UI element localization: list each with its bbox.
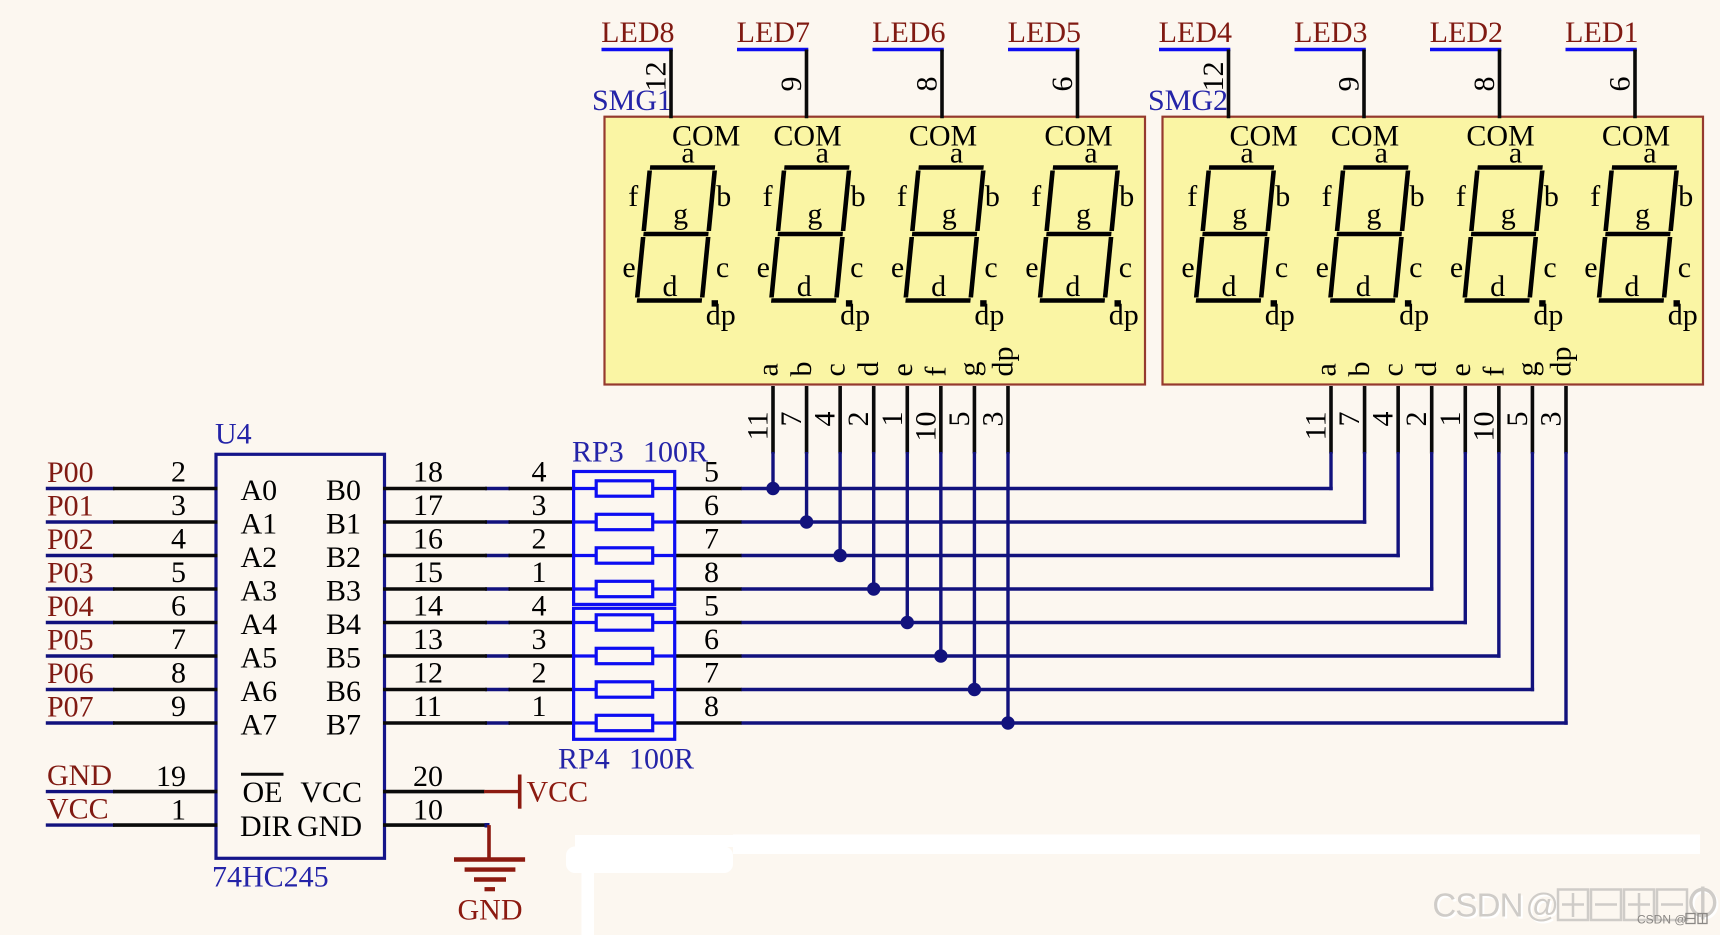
wire segment row 2 (chip pin to RP pin) bbox=[485, 520, 510, 523]
wire SMG1 a vertical bbox=[771, 452, 774, 489]
wire segment row 4 (RP output to displays) bbox=[741, 587, 1433, 590]
wire SMG2 a vertical bbox=[1329, 452, 1332, 490]
svg-text:B3: B3 bbox=[326, 575, 361, 608]
resistor RP4 element 2 body bbox=[596, 648, 653, 663]
svg-text:5: 5 bbox=[171, 556, 186, 589]
svg-text:B1: B1 bbox=[326, 508, 361, 541]
resistor RP3 element 1 body bbox=[596, 481, 653, 496]
pin of RP (pin 4) bbox=[509, 487, 576, 491]
pin A4 (pin 6) of U4 bbox=[113, 621, 218, 625]
pin dp (pin 3) of SMG2 bbox=[1564, 386, 1568, 454]
svg-text:1: 1 bbox=[532, 690, 547, 723]
decimal point dp bbox=[1271, 300, 1277, 306]
junction node row 6 bbox=[934, 649, 947, 662]
svg-text:B6: B6 bbox=[326, 675, 361, 708]
svg-text:VCC: VCC bbox=[300, 776, 362, 809]
7-segment digit 2 of SMG2 bbox=[1330, 168, 1408, 301]
svg-text:COM: COM bbox=[1044, 120, 1112, 153]
junction node row 8 bbox=[1001, 716, 1014, 729]
svg-text:g: g bbox=[1635, 198, 1650, 231]
svg-text:7: 7 bbox=[704, 523, 719, 556]
pin of RP (pin 1) bbox=[509, 587, 576, 591]
svg-text:b: b bbox=[1275, 180, 1290, 213]
svg-text:14: 14 bbox=[413, 590, 443, 623]
svg-text:d: d bbox=[1356, 270, 1371, 303]
svg-text:A7: A7 bbox=[241, 709, 278, 742]
svg-text:2: 2 bbox=[1400, 412, 1433, 427]
svg-text:P02: P02 bbox=[47, 523, 94, 556]
svg-text:GND: GND bbox=[297, 810, 362, 843]
svg-text:g: g bbox=[1076, 198, 1091, 231]
svg-text:B4: B4 bbox=[326, 608, 361, 641]
7-segment digit 1 of SMG2 bbox=[1196, 168, 1274, 301]
svg-text:5: 5 bbox=[704, 590, 719, 623]
svg-text:g: g bbox=[1511, 362, 1544, 377]
wire (net LED6) bbox=[873, 48, 944, 51]
op-amp substitute: IC U4 74HC245 body bbox=[216, 454, 385, 858]
watermark white knockout shapes bbox=[575, 835, 733, 847]
decimal point dp bbox=[712, 300, 718, 306]
svg-text:16: 16 bbox=[413, 523, 443, 556]
svg-text:a: a bbox=[816, 137, 829, 170]
svg-text:LED5: LED5 bbox=[1008, 16, 1081, 49]
svg-text:LED7: LED7 bbox=[737, 16, 810, 49]
pin dp (pin 3) of SMG1 bbox=[1006, 386, 1010, 454]
svg-text:f: f bbox=[1590, 180, 1600, 213]
pin of RP (pin 4) bbox=[509, 621, 576, 625]
svg-text:b: b bbox=[1410, 180, 1425, 213]
decimal point dp bbox=[980, 300, 986, 306]
junction node row 1 bbox=[766, 482, 779, 495]
svg-text:COM: COM bbox=[1466, 120, 1534, 153]
wire (net P03) bbox=[46, 587, 115, 590]
svg-text:g: g bbox=[807, 198, 822, 231]
pin A2 (pin 4) of U4 bbox=[113, 554, 218, 558]
svg-text:a: a bbox=[950, 137, 963, 170]
display module SMG2 body bbox=[1163, 117, 1704, 385]
svg-text:b: b bbox=[1678, 180, 1693, 213]
svg-text:b: b bbox=[1119, 180, 1134, 213]
wire (net P06) bbox=[46, 688, 115, 691]
svg-text:e: e bbox=[891, 251, 904, 284]
pin d (pin 2) of SMG1 bbox=[872, 386, 876, 454]
pin B5 (pin 13) of U4 bbox=[383, 654, 487, 658]
pin A1 (pin 3) of U4 bbox=[113, 520, 218, 524]
svg-text:1: 1 bbox=[876, 412, 909, 427]
svg-text:b: b bbox=[1343, 362, 1376, 377]
resistor RP4 element 1 leads bbox=[574, 621, 597, 624]
svg-text:a: a bbox=[1084, 137, 1097, 170]
pin c (pin 4) of SMG1 bbox=[838, 386, 842, 454]
wire segment row 1 (RP output to displays) bbox=[741, 487, 1333, 490]
svg-text:3: 3 bbox=[1534, 412, 1567, 427]
svg-text:c: c bbox=[1275, 251, 1288, 284]
pin b (pin 7) of SMG2 bbox=[1363, 386, 1367, 454]
svg-text:g: g bbox=[673, 198, 688, 231]
svg-text:dp: dp bbox=[1668, 299, 1698, 332]
svg-text:11: 11 bbox=[742, 412, 775, 441]
svg-text:f: f bbox=[1322, 180, 1332, 213]
svg-text:e: e bbox=[1025, 251, 1038, 284]
wire (net P01) bbox=[46, 520, 115, 523]
7-segment digit 2 of SMG1 bbox=[771, 168, 849, 301]
svg-text:B7: B7 bbox=[326, 709, 361, 742]
wire (net LED7) bbox=[737, 48, 808, 51]
svg-text:dp: dp bbox=[1265, 299, 1295, 332]
svg-text:LED2: LED2 bbox=[1430, 16, 1503, 49]
junction node row 4 bbox=[867, 582, 880, 595]
svg-text:4: 4 bbox=[532, 456, 547, 489]
svg-text:dp: dp bbox=[1544, 347, 1577, 377]
svg-text:A1: A1 bbox=[241, 508, 278, 541]
pin A7 (pin 9) of U4 bbox=[113, 721, 218, 725]
svg-text:2: 2 bbox=[842, 412, 875, 427]
resistor RP4 element 3 leads bbox=[574, 688, 597, 691]
wire SMG1 dp vertical bbox=[1006, 452, 1009, 723]
svg-text:8: 8 bbox=[911, 77, 944, 92]
resistor RP3 element 4 body bbox=[596, 581, 653, 596]
svg-text:a: a bbox=[1509, 137, 1522, 170]
7-segment digit 3 of SMG1 bbox=[906, 168, 984, 301]
pin g (pin 5) of SMG2 bbox=[1531, 386, 1535, 454]
svg-text:A0: A0 bbox=[241, 474, 278, 507]
pin e (pin 1) of SMG2 bbox=[1463, 386, 1467, 454]
svg-text:e: e bbox=[622, 251, 635, 284]
wire SMG1 e vertical bbox=[906, 452, 909, 623]
resistor RP4 element 3 body bbox=[596, 682, 653, 697]
pin b (pin 7) of SMG1 bbox=[805, 386, 809, 454]
pin B0 (pin 18) of U4 bbox=[383, 487, 487, 491]
pin COM (pin 12) of SMG2 bbox=[1227, 50, 1231, 119]
svg-text:g: g bbox=[1501, 198, 1516, 231]
svg-text:B5: B5 bbox=[326, 642, 361, 675]
svg-text:P04: P04 bbox=[47, 590, 94, 623]
svg-text:9: 9 bbox=[775, 77, 808, 92]
svg-text:13: 13 bbox=[413, 623, 443, 656]
pin B6 (pin 12) of U4 bbox=[383, 688, 487, 692]
svg-text:g: g bbox=[953, 362, 986, 377]
wire segment row 1 (chip pin to RP pin) bbox=[485, 487, 510, 490]
pin COM (pin 9) of SMG1 bbox=[805, 50, 809, 119]
svg-text:74HC245: 74HC245 bbox=[212, 861, 329, 894]
svg-text:B0: B0 bbox=[326, 474, 361, 507]
wire (net LED5) bbox=[1008, 48, 1079, 51]
pin COM (pin 6) of SMG2 bbox=[1633, 50, 1637, 119]
svg-text:f: f bbox=[1187, 180, 1197, 213]
wire SMG2 f vertical bbox=[1497, 452, 1500, 658]
svg-text:e: e bbox=[1316, 251, 1329, 284]
svg-text:a: a bbox=[1643, 137, 1656, 170]
wire (net VCC) bbox=[46, 823, 115, 826]
svg-text:4: 4 bbox=[809, 412, 842, 427]
svg-text:2: 2 bbox=[532, 523, 547, 556]
wire SMG2 b vertical bbox=[1363, 452, 1366, 524]
svg-text:d: d bbox=[1490, 270, 1505, 303]
svg-text:a: a bbox=[681, 137, 694, 170]
svg-text:b: b bbox=[985, 180, 1000, 213]
svg-text:U4: U4 bbox=[215, 418, 252, 451]
wire SMG1 g vertical bbox=[973, 452, 976, 690]
wire (net P02) bbox=[46, 554, 115, 557]
pin of RP (pin 5) bbox=[674, 487, 742, 491]
wire SMG2 d vertical bbox=[1430, 452, 1433, 591]
svg-text:g: g bbox=[1232, 198, 1247, 231]
pin of RP (pin 7) bbox=[674, 554, 742, 558]
svg-text:3: 3 bbox=[532, 489, 547, 522]
resistor RP3 element 4 leads bbox=[574, 587, 597, 590]
wire SMG2 c vertical bbox=[1396, 452, 1399, 557]
wire (net GND) bbox=[46, 790, 115, 793]
svg-text:e: e bbox=[757, 251, 770, 284]
pin COM (pin 9) of SMG2 bbox=[1362, 50, 1366, 119]
svg-text:COM: COM bbox=[773, 120, 841, 153]
pin of RP (pin 8) bbox=[674, 587, 742, 591]
wire (net LED2) bbox=[1430, 48, 1501, 51]
svg-text:11: 11 bbox=[1300, 412, 1333, 441]
pin of RP (pin 1) bbox=[509, 721, 576, 725]
resistor RP4 element 2 leads bbox=[574, 654, 597, 657]
wire SMG2 g vertical bbox=[1531, 452, 1534, 691]
wire segment row 4 (chip pin to RP pin) bbox=[485, 587, 510, 590]
junction node row 2 bbox=[800, 515, 813, 528]
svg-text:d: d bbox=[797, 270, 812, 303]
svg-text:f: f bbox=[763, 180, 773, 213]
svg-text:f: f bbox=[897, 180, 907, 213]
svg-text:COM: COM bbox=[909, 120, 977, 153]
pin COM (pin 6) of SMG1 bbox=[1076, 50, 1080, 119]
svg-text:e: e bbox=[1181, 251, 1194, 284]
svg-text:6: 6 bbox=[1604, 77, 1637, 92]
svg-text:f: f bbox=[1477, 367, 1510, 377]
svg-text:dp: dp bbox=[1533, 299, 1563, 332]
svg-text:a: a bbox=[752, 363, 785, 376]
pin OE (pin 19) of U4 bbox=[113, 790, 218, 794]
svg-text:c: c bbox=[850, 251, 863, 284]
pin of RP (pin 2) bbox=[509, 554, 576, 558]
pin B3 (pin 15) of U4 bbox=[383, 587, 487, 591]
svg-text:9: 9 bbox=[171, 690, 186, 723]
svg-text:7: 7 bbox=[775, 412, 808, 427]
svg-text:e: e bbox=[1444, 363, 1477, 376]
svg-text:LED8: LED8 bbox=[601, 16, 674, 49]
7-segment digit 4 of SMG1 bbox=[1040, 168, 1118, 301]
pin B7 (pin 11) of U4 bbox=[383, 721, 487, 725]
resistor RP4 element 1 body bbox=[596, 615, 653, 630]
svg-text:4: 4 bbox=[171, 523, 186, 556]
pin A3 (pin 5) of U4 bbox=[113, 587, 218, 591]
resistor RP3 element 2 body bbox=[596, 514, 653, 529]
svg-text:@: @ bbox=[1526, 887, 1559, 924]
svg-text:P05: P05 bbox=[47, 624, 94, 657]
svg-text:P07: P07 bbox=[47, 691, 94, 724]
svg-text:VCC: VCC bbox=[47, 793, 109, 826]
pin A5 (pin 7) of U4 bbox=[113, 654, 218, 658]
svg-text:6: 6 bbox=[704, 489, 719, 522]
svg-text:e: e bbox=[886, 363, 919, 376]
wire segment row 2 (RP output to displays) bbox=[741, 520, 1366, 523]
svg-text:10: 10 bbox=[909, 412, 942, 442]
wire (net LED1) bbox=[1566, 48, 1637, 51]
wire SMG1 b vertical bbox=[805, 452, 808, 522]
svg-text:dp: dp bbox=[840, 299, 870, 332]
wire (net P07) bbox=[46, 721, 115, 724]
wire (net P04) bbox=[46, 621, 115, 624]
svg-text:dp: dp bbox=[1109, 299, 1139, 332]
svg-text:c: c bbox=[984, 251, 997, 284]
svg-text:1: 1 bbox=[532, 556, 547, 589]
svg-text:6: 6 bbox=[704, 623, 719, 656]
svg-text:d: d bbox=[663, 270, 678, 303]
svg-text:b: b bbox=[716, 180, 731, 213]
pin COM (pin 8) of SMG1 bbox=[940, 50, 944, 119]
wire (net P00) bbox=[46, 487, 115, 490]
svg-text:COM: COM bbox=[1331, 120, 1399, 153]
svg-text:A5: A5 bbox=[241, 642, 278, 675]
svg-text:f: f bbox=[919, 367, 952, 377]
wire SMG1 d vertical bbox=[872, 452, 875, 589]
svg-text:P06: P06 bbox=[47, 657, 94, 690]
svg-text:8: 8 bbox=[704, 690, 719, 723]
svg-text:P00: P00 bbox=[47, 456, 94, 489]
7-segment digit 4 of SMG2 bbox=[1599, 168, 1677, 301]
svg-text:3: 3 bbox=[532, 623, 547, 656]
wire segment row 8 (RP output to displays) bbox=[741, 721, 1568, 724]
svg-text:d: d bbox=[1222, 270, 1237, 303]
pin A6 (pin 8) of U4 bbox=[113, 688, 218, 692]
svg-text:P03: P03 bbox=[47, 557, 94, 590]
svg-text:8: 8 bbox=[704, 556, 719, 589]
wire (net LED3) bbox=[1295, 48, 1366, 51]
junction node row 3 bbox=[833, 549, 846, 562]
svg-text:c: c bbox=[1119, 251, 1132, 284]
svg-text:A6: A6 bbox=[241, 675, 278, 708]
svg-text:OE: OE bbox=[243, 776, 283, 809]
svg-text:5: 5 bbox=[1501, 412, 1534, 427]
pin a (pin 11) of SMG2 bbox=[1329, 386, 1333, 454]
svg-text:1: 1 bbox=[171, 794, 186, 827]
wire SMG2 dp vertical bbox=[1564, 452, 1567, 725]
svg-text:LED1: LED1 bbox=[1565, 16, 1638, 49]
svg-text:e: e bbox=[1450, 251, 1463, 284]
svg-text:dp: dp bbox=[986, 347, 1019, 377]
svg-text:a: a bbox=[1310, 363, 1343, 376]
svg-text:GND: GND bbox=[47, 759, 112, 792]
svg-text:15: 15 bbox=[413, 556, 443, 589]
resistor RP3 element 3 body bbox=[596, 548, 653, 563]
svg-text:5: 5 bbox=[943, 412, 976, 427]
junction node row 7 bbox=[968, 683, 981, 696]
svg-text:7: 7 bbox=[1333, 412, 1366, 427]
pin of RP (pin 6) bbox=[674, 654, 742, 658]
svg-text:c: c bbox=[716, 251, 729, 284]
pin of RP (pin 8) bbox=[674, 721, 742, 725]
svg-text:dp: dp bbox=[974, 299, 1004, 332]
svg-text:9: 9 bbox=[1333, 77, 1366, 92]
svg-text:3: 3 bbox=[976, 412, 1009, 427]
pin VCC (pin 20) of U4 bbox=[383, 790, 485, 794]
svg-text:COM: COM bbox=[1602, 120, 1670, 153]
wire SMG1 f vertical bbox=[939, 452, 942, 656]
svg-text:b: b bbox=[1544, 180, 1559, 213]
wire SMG2 e vertical bbox=[1464, 452, 1467, 624]
pin COM (pin 8) of SMG2 bbox=[1498, 50, 1502, 119]
svg-text:6: 6 bbox=[1046, 77, 1079, 92]
svg-text:19: 19 bbox=[156, 760, 186, 793]
wire (net LED8) bbox=[602, 48, 673, 51]
svg-text:d: d bbox=[931, 270, 946, 303]
svg-text:GND: GND bbox=[458, 894, 523, 927]
decimal point dp bbox=[1539, 300, 1545, 306]
7-segment digit 1 of SMG1 bbox=[637, 168, 715, 301]
wire segment row 3 (RP output to displays) bbox=[741, 554, 1400, 557]
pin of RP (pin 6) bbox=[674, 520, 742, 524]
pin COM (pin 12) of SMG1 bbox=[669, 50, 673, 119]
svg-text:100R: 100R bbox=[629, 743, 694, 776]
svg-text:c: c bbox=[1377, 363, 1410, 376]
resistor network RP4 box bbox=[574, 608, 675, 739]
svg-text:8: 8 bbox=[171, 657, 186, 690]
svg-text:2: 2 bbox=[171, 456, 186, 489]
svg-text:f: f bbox=[1031, 180, 1041, 213]
resistor RP3 element 3 leads bbox=[574, 554, 597, 557]
decimal point dp bbox=[1674, 300, 1680, 306]
wire segment row 5 (RP output to displays) bbox=[741, 621, 1467, 624]
resistor RP3 element 1 leads bbox=[574, 487, 597, 490]
pin of RP (pin 7) bbox=[674, 688, 742, 692]
svg-text:10: 10 bbox=[413, 794, 443, 827]
wire segment row 8 (chip pin to RP pin) bbox=[485, 721, 510, 724]
svg-text:VCC: VCC bbox=[527, 776, 589, 809]
svg-text:CSDN @: CSDN @ bbox=[1637, 913, 1687, 927]
pin GND (pin 10) of U4 bbox=[383, 823, 487, 827]
wire segment row 7 (RP output to displays) bbox=[741, 688, 1534, 691]
wire (net LED4) bbox=[1159, 48, 1230, 51]
svg-text:7: 7 bbox=[171, 623, 186, 656]
svg-text:d: d bbox=[1065, 270, 1080, 303]
svg-text:RP3: RP3 bbox=[572, 436, 624, 469]
svg-text:dp: dp bbox=[706, 299, 736, 332]
svg-text:a: a bbox=[1375, 137, 1388, 170]
svg-text:a: a bbox=[1240, 137, 1253, 170]
svg-text:12: 12 bbox=[1197, 62, 1230, 92]
svg-text:LED4: LED4 bbox=[1159, 16, 1232, 49]
decimal point dp bbox=[846, 300, 852, 306]
pin of RP (pin 2) bbox=[509, 688, 576, 692]
svg-text:LED3: LED3 bbox=[1294, 16, 1367, 49]
pin B2 (pin 16) of U4 bbox=[383, 554, 487, 558]
svg-text:f: f bbox=[1456, 180, 1466, 213]
svg-text:P01: P01 bbox=[47, 490, 94, 523]
svg-text:12: 12 bbox=[413, 657, 443, 690]
pin a (pin 11) of SMG1 bbox=[771, 386, 775, 454]
wire segment row 7 (chip pin to RP pin) bbox=[485, 688, 510, 691]
svg-text:100R: 100R bbox=[643, 436, 708, 469]
svg-text:6: 6 bbox=[171, 590, 186, 623]
svg-text:3: 3 bbox=[171, 489, 186, 522]
wire SMG1 c vertical bbox=[838, 452, 841, 556]
svg-text:d: d bbox=[1410, 362, 1443, 377]
decimal point dp bbox=[1405, 300, 1411, 306]
resistor network RP3 box bbox=[574, 472, 675, 605]
svg-text:4: 4 bbox=[532, 590, 547, 623]
pin DIR (pin 1) of U4 bbox=[113, 823, 218, 827]
pin of RP (pin 3) bbox=[509, 654, 576, 658]
pin B1 (pin 17) of U4 bbox=[383, 520, 487, 524]
svg-text:8: 8 bbox=[1468, 77, 1501, 92]
svg-text:c: c bbox=[1543, 251, 1556, 284]
svg-text:B2: B2 bbox=[326, 541, 361, 574]
resistor RP4 element 4 leads bbox=[574, 721, 597, 724]
